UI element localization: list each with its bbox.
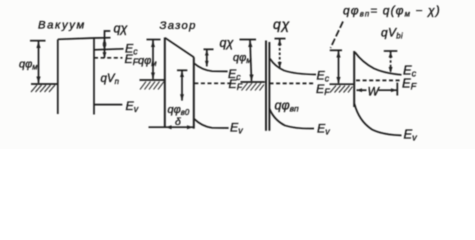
metal Fermi level line hatched, panel d — [330, 83, 354, 85]
svg-text:qVbi: qVbi — [381, 26, 403, 41]
svg-text:Вакуум: Вакуум — [38, 20, 86, 32]
svg-text:qφм: qφм — [138, 55, 157, 68]
svg-text:qχ: qχ — [114, 22, 128, 36]
metal hatching, panel a — [31, 85, 55, 92]
metal surface vertical, panel d — [353, 51, 355, 107]
qVbi arrow, panel d — [390, 51, 392, 73]
Ev band curve, panel d — [355, 104, 402, 135]
svg-text:qφв0: qφв0 — [168, 104, 190, 117]
Ec line, panel a — [94, 49, 124, 50]
svg-text:δ: δ — [175, 116, 181, 128]
Ec band curve from barrier peak, panel d — [355, 52, 402, 75]
metal Fermi level line hatched, panel c — [241, 81, 265, 83]
depletion edge tick, panel d — [396, 83, 398, 96]
svg-text:Ev: Ev — [317, 122, 330, 137]
svg-text:Ev: Ev — [404, 127, 419, 143]
svg-text:W: W — [368, 85, 381, 99]
svg-text:qφвп: qφвп — [275, 99, 300, 114]
vacuum slant line across gap, panel b — [165, 38, 194, 58]
metal hatching, panel d — [330, 86, 353, 93]
metal Fermi level line, panel b — [140, 79, 165, 81]
barrier height arrow qφвп, panel d — [338, 51, 340, 84]
metal surface vertical, panel a — [57, 40, 59, 115]
vacuum level tick above metal, panel a — [30, 40, 46, 42]
svg-text:qχ: qχ — [273, 16, 290, 32]
Ev line, panel a — [95, 104, 123, 106]
svg-text:Ev: Ev — [126, 99, 139, 114]
EF dashed line, panel b — [194, 82, 230, 84]
semiconductor surface vertical, panel a — [93, 38, 95, 115]
Ec band curve, panel b — [194, 64, 227, 72]
arrow qφm, panel c — [250, 40, 252, 81]
svg-text:Ev: Ev — [230, 121, 243, 136]
arrow qφm metal work function, panel a — [38, 41, 40, 83]
qφ barrier arrow, panel b — [177, 69, 187, 71]
arrow qφm, panel b — [152, 40, 154, 79]
svg-text:qVn: qVn — [101, 73, 119, 86]
Ec band curve, panel c — [270, 59, 316, 75]
depletion width W dimension, panel d — [357, 89, 367, 91]
svg-text:EF: EF — [316, 82, 330, 97]
vacuum level tick above metal, panel c — [240, 39, 257, 41]
EF dashed line, panel c — [270, 82, 316, 84]
svg-text:Зазор: Зазор — [160, 20, 197, 32]
svg-text:qχ: qχ — [220, 36, 234, 50]
qVbi reference bar, panel d — [384, 50, 398, 52]
barrier peak reference bar, panel d — [330, 49, 342, 51]
semiconductor surface vertical (gap wall), panel c — [268, 42, 270, 131]
semiconductor surface vertical, panel b — [193, 57, 195, 128]
measuring shaft with bracket, panel a (qχ / qVn) — [105, 31, 111, 58]
δ dimension arrows, panel b — [149, 126, 194, 128]
vacuum level tick above metal, panel b — [147, 39, 161, 41]
Ev band curve, panel c — [269, 109, 314, 129]
qχ bracket and arrow, panel b — [204, 48, 214, 50]
Ev band curve, panel b — [194, 119, 228, 128]
EF dashed line, panel a — [94, 57, 123, 59]
metal hatching, panel b — [140, 82, 164, 90]
qχ bracket and dashed arrow, panel c — [275, 38, 286, 40]
svg-text:qφвп= q(φм − χ): qφвп= q(φм − χ) — [343, 4, 441, 19]
metal hatching, panel c — [242, 83, 265, 91]
metal Fermi level line, panel a — [31, 83, 58, 85]
leader line from formula to barrier peak, panel d — [331, 22, 344, 49]
metal surface vertical (gap wall), panel c — [265, 41, 267, 131]
EF dashed line, panel d — [356, 79, 401, 81]
svg-text:qφм: qφм — [233, 52, 252, 65]
vacuum level line over gap and semiconductor, panel a — [58, 38, 111, 40]
svg-text:qφм: qφм — [19, 59, 38, 72]
metal surface vertical, panel b — [164, 38, 166, 128]
